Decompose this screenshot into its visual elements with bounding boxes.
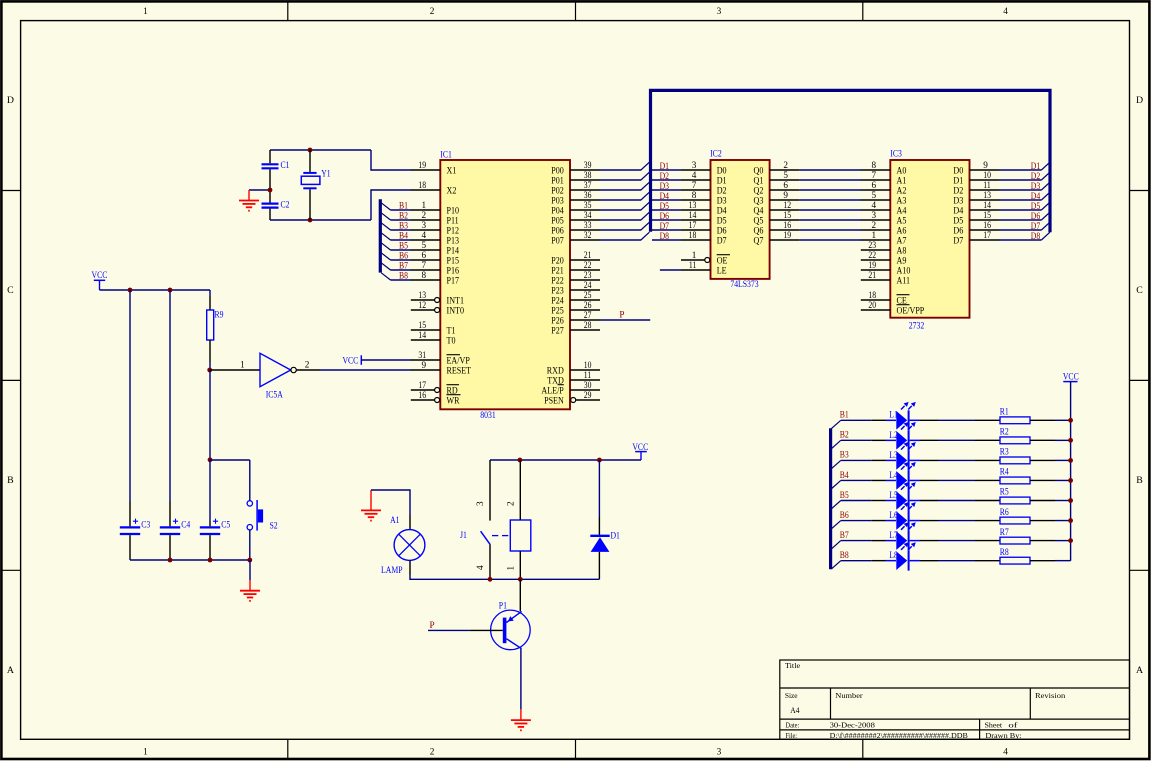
resistor R4 <box>1000 467 1030 484</box>
bus entry right D1 <box>1041 162 1050 170</box>
svg-text:B8: B8 <box>399 271 408 281</box>
ic IC2 pin D3 <box>681 190 727 206</box>
bus entry right D3 <box>1041 182 1050 190</box>
ic IC3 pin A4 <box>861 200 907 216</box>
svg-text:28: 28 <box>584 320 592 330</box>
svg-text:1: 1 <box>143 747 148 757</box>
power VCC rail symbol <box>92 270 108 290</box>
net label D5 right <box>1031 201 1041 211</box>
junction inverter input <box>207 368 212 373</box>
bus B1-B8 at IC1 <box>379 199 382 272</box>
svg-text:D5: D5 <box>1031 201 1041 211</box>
resistor R7 <box>1000 527 1030 544</box>
svg-text:VCC: VCC <box>92 270 108 280</box>
ic IC2 pin OE <box>681 250 730 266</box>
ic IC1 pin P23 <box>551 280 600 296</box>
bus entry B8 <box>381 273 390 280</box>
wire B2 to P11 <box>391 219 412 221</box>
svg-text:3: 3 <box>717 747 722 757</box>
ic IC3 pin A5 <box>861 210 907 226</box>
svg-text:19: 19 <box>868 260 876 270</box>
svg-text:R8: R8 <box>1000 547 1009 557</box>
wire S2 branch horizontal <box>210 459 250 461</box>
svg-text:8: 8 <box>692 190 697 200</box>
svg-text:6: 6 <box>872 180 877 190</box>
svg-text:39: 39 <box>584 160 592 170</box>
ic IC3 pin D6 <box>953 220 999 236</box>
wire R5 to VCC <box>1030 500 1071 502</box>
svg-text:1: 1 <box>506 566 516 571</box>
wire bus to IC2 D7 <box>652 239 681 241</box>
bus entry left D7 <box>641 222 650 230</box>
net label B3 <box>399 221 408 231</box>
junction VCC rail row 4 <box>1068 478 1073 483</box>
svg-text:3: 3 <box>422 220 427 230</box>
ic IC1 8031 body <box>440 160 570 409</box>
net label D3 left <box>660 181 670 191</box>
net label D2 right <box>1031 171 1041 181</box>
ground left rail <box>240 580 260 601</box>
net label D3 right <box>1031 181 1041 191</box>
ic IC1 pin X1 <box>411 160 457 176</box>
ic IC3 pin D5 <box>953 210 999 226</box>
wire LE stub <box>660 269 681 271</box>
svg-text:2: 2 <box>783 160 788 170</box>
svg-text:22: 22 <box>584 260 592 270</box>
wire B6 to P15 <box>391 259 412 261</box>
inverter IC5A <box>260 353 291 386</box>
ic IC1 pin P21 <box>551 260 600 276</box>
wire R1 to VCC <box>1030 419 1071 421</box>
wire lamp bottom <box>410 560 490 579</box>
bus entry LED B4 <box>831 480 840 488</box>
svg-text:B2: B2 <box>840 430 849 440</box>
wire B4 to P13 <box>391 239 412 241</box>
net label LED B8 <box>840 550 849 560</box>
svg-text:5: 5 <box>872 190 877 200</box>
right zone tick marks <box>1130 190 1150 192</box>
wire bus to IC2 D4 <box>652 209 681 211</box>
ic IC1 pin INT0 <box>411 300 464 316</box>
svg-text:S2: S2 <box>270 521 279 531</box>
led L7 <box>889 522 916 550</box>
relay J1 coil <box>510 520 531 551</box>
wire X1 from crystal <box>371 150 411 170</box>
svg-text:B1: B1 <box>399 201 408 211</box>
svg-text:37: 37 <box>584 180 592 190</box>
svg-text:R5: R5 <box>1000 487 1009 497</box>
net label P at P26 <box>619 309 624 319</box>
bus entry right D2 <box>1041 172 1050 180</box>
svg-text:5: 5 <box>422 240 427 250</box>
bus entry right D6 <box>1041 212 1050 220</box>
svg-text:21: 21 <box>868 270 876 280</box>
svg-text:14: 14 <box>418 330 426 340</box>
ic IC1 pin P07 <box>551 230 600 246</box>
wire LED to R2 <box>910 439 1000 441</box>
ic IC2 pin D1 <box>681 170 727 186</box>
bus entry B6 <box>381 253 390 260</box>
ground crystal <box>248 190 250 200</box>
wire B8 to LED <box>841 560 896 562</box>
ic IC1 pin T0 <box>411 330 456 346</box>
ic IC1 pin P14 <box>411 240 459 256</box>
junction bottom rail coil <box>518 577 523 582</box>
svg-text:D8: D8 <box>1031 231 1041 241</box>
resistor R9 <box>209 296 211 310</box>
junction crystal top <box>308 148 313 153</box>
net label LED B7 <box>840 530 849 540</box>
ic IC3 pin A6 <box>861 220 907 236</box>
bus entry B4 <box>381 233 390 240</box>
ic IC2 pin Q0 <box>754 160 800 176</box>
svg-text:B3: B3 <box>399 221 408 231</box>
ic IC3 pin D1 <box>953 170 999 186</box>
svg-text:4: 4 <box>872 200 877 210</box>
wire C3 branch vertical <box>129 290 131 501</box>
svg-text:15: 15 <box>783 210 791 220</box>
bottom zone tick marks <box>287 739 289 758</box>
ic IC1 pin P10 <box>411 200 459 216</box>
svg-text:16: 16 <box>783 220 791 230</box>
svg-text:Drawn By:: Drawn By: <box>985 731 1021 740</box>
net label D4 left <box>660 191 670 201</box>
wire IC3 D1 to bus <box>1000 179 1042 181</box>
wire LED to R6 <box>910 520 1000 522</box>
svg-text:29: 29 <box>584 390 592 400</box>
svg-text:X2: X2 <box>447 185 457 196</box>
svg-text:20: 20 <box>868 300 876 310</box>
bus entry LED B3 <box>831 460 840 468</box>
wire R9 branch top <box>209 290 211 296</box>
svg-text:LAMP: LAMP <box>381 565 403 575</box>
net label LED B4 <box>840 470 849 480</box>
svg-text:P27: P27 <box>551 325 564 336</box>
svg-text:OE/VPP: OE/VPP <box>897 305 925 316</box>
net label D6 right <box>1031 211 1041 221</box>
ic IC2 pin Q7 <box>754 230 800 246</box>
svg-text:Sheet: Sheet <box>985 721 1003 730</box>
svg-text:16: 16 <box>418 390 426 400</box>
svg-text:9: 9 <box>783 190 788 200</box>
svg-text:23: 23 <box>868 240 876 250</box>
ic IC2 pin Q6 <box>754 220 800 236</box>
junction S2 branch <box>208 457 213 462</box>
svg-text:16: 16 <box>983 220 991 230</box>
svg-text:19: 19 <box>783 230 791 240</box>
ic IC2 pin D4 <box>681 200 727 216</box>
net label LED B5 <box>840 490 849 500</box>
junction VCC rail C3 <box>128 288 133 293</box>
wire ground rail bottom <box>130 559 250 561</box>
capacitor C3 <box>129 501 131 526</box>
wire C5 vertical <box>209 460 211 521</box>
ic IC3 pin A10 <box>861 260 911 276</box>
wire IC3 D7 to bus <box>1000 239 1042 241</box>
net label D6 left <box>660 211 670 221</box>
ic IC2 pin LE <box>681 260 727 276</box>
ic IC2 pin Q4 <box>754 200 800 216</box>
wire S2 top <box>249 460 251 501</box>
svg-text:X1: X1 <box>447 165 457 176</box>
ic IC1 pin INT1 <box>411 290 464 306</box>
wire IC3 D2 to bus <box>1000 189 1042 191</box>
ic IC1 pin P22 <box>551 270 600 286</box>
svg-text:D1: D1 <box>611 531 621 541</box>
svg-text:Y1: Y1 <box>321 168 331 178</box>
junction relay coil top <box>518 458 523 463</box>
svg-text:4: 4 <box>475 565 485 570</box>
wire lamp top <box>371 490 410 530</box>
net label B4 <box>399 231 408 241</box>
bus D1-D8 main loop <box>651 90 1051 232</box>
svg-text:4: 4 <box>422 230 427 240</box>
svg-text:R1: R1 <box>1000 407 1009 417</box>
ic IC2 pin Q5 <box>754 210 800 226</box>
top zone tick marks <box>287 2 289 21</box>
wire R3 to VCC <box>1030 459 1071 461</box>
ic IC1 pin P02 <box>551 180 600 196</box>
svg-text:C3: C3 <box>141 519 150 529</box>
svg-text:6: 6 <box>422 250 427 260</box>
capacitor C2 <box>269 190 271 203</box>
junction VCC rail C4 <box>168 288 173 293</box>
wire B3 to P12 <box>391 229 412 231</box>
title block outline <box>780 660 1130 739</box>
wire P07 to bus <box>600 239 641 241</box>
svg-text:1: 1 <box>240 359 245 369</box>
wire emitter to ground <box>520 649 522 710</box>
led L6 <box>889 502 916 530</box>
wire Q1 to A1 <box>800 179 861 181</box>
svg-text:22: 22 <box>868 250 876 260</box>
wire P06 to bus <box>600 229 641 231</box>
svg-text:J1: J1 <box>460 530 467 540</box>
svg-text:36: 36 <box>584 190 592 200</box>
left zone tick marks <box>2 190 21 192</box>
wire to crystal ground <box>249 189 270 191</box>
svg-text:3: 3 <box>717 7 722 17</box>
wire P26 net P <box>600 319 650 321</box>
svg-text:15: 15 <box>983 210 991 220</box>
svg-text:B6: B6 <box>399 251 408 261</box>
net label LED B6 <box>840 510 849 520</box>
wire Q5 to A5 <box>800 219 861 221</box>
svg-text:P: P <box>619 309 624 319</box>
switch S2 <box>247 501 252 506</box>
svg-text:13: 13 <box>689 200 697 210</box>
title block row lines <box>780 687 1130 689</box>
wire bus to IC2 D1 <box>652 179 681 181</box>
svg-text:15: 15 <box>418 320 426 330</box>
led L8 <box>889 542 916 570</box>
svg-text:13: 13 <box>418 290 426 300</box>
wire LED to R7 <box>910 540 1000 542</box>
wire C4 branch vertical <box>169 290 171 501</box>
resistor R2 <box>1000 427 1030 444</box>
bus entry LED B5 <box>831 501 840 509</box>
svg-text:3: 3 <box>872 210 877 220</box>
ic IC1 pin PSEN <box>544 390 600 406</box>
junction VCC rail row 1 <box>1068 418 1073 423</box>
svg-text:Date:: Date: <box>786 721 800 730</box>
svg-text:B7: B7 <box>840 530 849 540</box>
ic IC1 pin P15 <box>411 250 459 266</box>
svg-text:25: 25 <box>584 290 592 300</box>
wire S2 bottom <box>249 530 251 560</box>
wire P05 to bus <box>600 219 641 221</box>
net label D8 right <box>1031 231 1041 241</box>
svg-text:31: 31 <box>418 350 426 360</box>
ic IC1 pin P05 <box>551 210 600 226</box>
wire X2 from crystal <box>371 190 411 220</box>
svg-text:D4: D4 <box>1031 191 1041 201</box>
svg-text:17: 17 <box>983 230 991 240</box>
ic IC3 pin A11 <box>861 270 910 286</box>
wire Q7 to A7 <box>800 239 861 241</box>
net label D5 left <box>660 201 670 211</box>
junction VCC rail row 5 <box>1068 498 1073 503</box>
svg-text:IC5A: IC5A <box>266 389 284 399</box>
resistor R3 <box>1000 447 1030 464</box>
svg-text:30: 30 <box>584 380 592 390</box>
wire R6 to VCC <box>1030 520 1071 522</box>
wire VCC rail horizontal <box>100 289 211 291</box>
svg-text:12: 12 <box>418 300 426 310</box>
ic IC3 pin D7 <box>953 230 999 246</box>
led L4 <box>889 462 916 490</box>
ic IC1 pin RESET <box>411 360 471 376</box>
ic IC1 pin P26 <box>551 310 600 326</box>
led L1 <box>889 402 916 430</box>
ic IC2 pin D0 <box>681 160 727 176</box>
net label D7 left <box>660 221 670 231</box>
svg-text:26: 26 <box>584 300 592 310</box>
wire B7 to P16 <box>391 269 412 271</box>
ic IC2 74LS373 body <box>711 160 770 279</box>
wire LED to R1 <box>910 419 1000 421</box>
wire P03 to bus <box>600 199 641 201</box>
svg-text:P: P <box>430 620 435 630</box>
net label B8 <box>399 271 408 281</box>
bus entry right D7 <box>1041 222 1050 230</box>
title block column lines <box>830 688 832 719</box>
svg-text:INT0: INT0 <box>447 305 465 316</box>
wire LED to R5 <box>910 500 1000 502</box>
svg-text:R3: R3 <box>1000 447 1009 457</box>
ic IC1 pin TXD <box>547 370 600 386</box>
ic IC1 pin P25 <box>551 300 600 316</box>
wire to ground left <box>249 560 251 580</box>
svg-text:R7: R7 <box>1000 527 1009 537</box>
svg-text:23: 23 <box>584 270 592 280</box>
bus B1-B8 LED array <box>829 428 832 569</box>
svg-text:Size: Size <box>785 691 798 700</box>
bus entry LED B1 <box>831 420 840 428</box>
wire P02 to bus <box>600 189 641 191</box>
svg-text:8: 8 <box>872 160 877 170</box>
svg-text:12: 12 <box>783 200 791 210</box>
bus entry LED B8 <box>831 561 840 569</box>
wire B8 to P17 <box>391 279 412 281</box>
capacitor C1 <box>269 150 271 163</box>
svg-text:P17: P17 <box>447 275 460 286</box>
ic IC1 pin P24 <box>551 290 600 306</box>
svg-text:C1: C1 <box>281 160 290 170</box>
wire B1 to P10 <box>391 209 412 211</box>
junction VCC rail row 2 <box>1068 438 1073 443</box>
junction VCC rail row 6 <box>1068 518 1073 523</box>
wire junction to inverter <box>210 359 260 370</box>
net label D8 left <box>660 231 670 241</box>
svg-text:5: 5 <box>783 170 788 180</box>
svg-text:D7: D7 <box>953 235 963 246</box>
svg-text:D3: D3 <box>1031 181 1041 191</box>
svg-text:17: 17 <box>418 380 426 390</box>
svg-text:Title: Title <box>785 661 801 670</box>
svg-text:24: 24 <box>584 280 592 290</box>
ic IC3 pin OE/VPP <box>861 300 925 316</box>
svg-text:File:: File: <box>786 731 798 740</box>
wire IC3 D3 to bus <box>1000 199 1042 201</box>
ic IC1 pin P11 <box>411 210 459 226</box>
junction gnd rail S2 <box>247 558 252 563</box>
svg-text:PSEN: PSEN <box>544 395 564 406</box>
svg-text:3: 3 <box>692 160 697 170</box>
svg-text:14: 14 <box>983 200 991 210</box>
svg-text:14: 14 <box>689 210 697 220</box>
wire IC3 D4 to bus <box>1000 209 1042 211</box>
svg-text:C4: C4 <box>181 519 190 529</box>
svg-text:B8: B8 <box>840 550 849 560</box>
svg-text:IC2: IC2 <box>710 148 722 158</box>
svg-text:D6: D6 <box>1031 211 1041 221</box>
ic IC1 pin RD <box>411 380 459 396</box>
svg-text:P07: P07 <box>551 235 564 246</box>
svg-text:38: 38 <box>584 170 592 180</box>
net label B7 <box>399 261 408 271</box>
svg-text:T0: T0 <box>447 335 456 346</box>
wire crystal bottom rail <box>270 219 371 221</box>
svg-text:4: 4 <box>1003 7 1008 17</box>
ic IC3 pin D4 <box>953 200 999 216</box>
wire IC3 D6 to bus <box>1000 229 1042 231</box>
svg-text:C: C <box>1136 285 1143 296</box>
led L3 <box>889 442 916 470</box>
ic IC3 pin D0 <box>953 160 999 176</box>
wire B1 to LED <box>841 419 896 421</box>
ic IC1 pin P00 <box>551 160 600 176</box>
svg-text:1: 1 <box>692 250 697 260</box>
junction crystal bottom <box>308 218 313 223</box>
ic IC2 pin D6 <box>681 220 727 236</box>
svg-text:R6: R6 <box>1000 507 1009 517</box>
svg-text:D:\f\########2\##########\####: D:\f\########2\##########\######.DDB <box>830 731 968 740</box>
svg-text:RESET: RESET <box>447 365 472 376</box>
wire inverter output <box>296 359 411 370</box>
svg-text:74LS373: 74LS373 <box>730 279 759 289</box>
svg-text:2: 2 <box>430 7 435 17</box>
svg-text:D: D <box>7 95 14 106</box>
net label P at base <box>430 620 435 630</box>
ic IC1 pin RXD <box>547 360 600 376</box>
svg-text:13: 13 <box>983 190 991 200</box>
svg-text:1: 1 <box>143 7 148 17</box>
svg-text:30-Dec-2008: 30-Dec-2008 <box>830 721 875 730</box>
svg-text:R4: R4 <box>1000 467 1009 477</box>
bus entry left D5 <box>641 202 650 210</box>
net label LED B2 <box>840 430 849 440</box>
